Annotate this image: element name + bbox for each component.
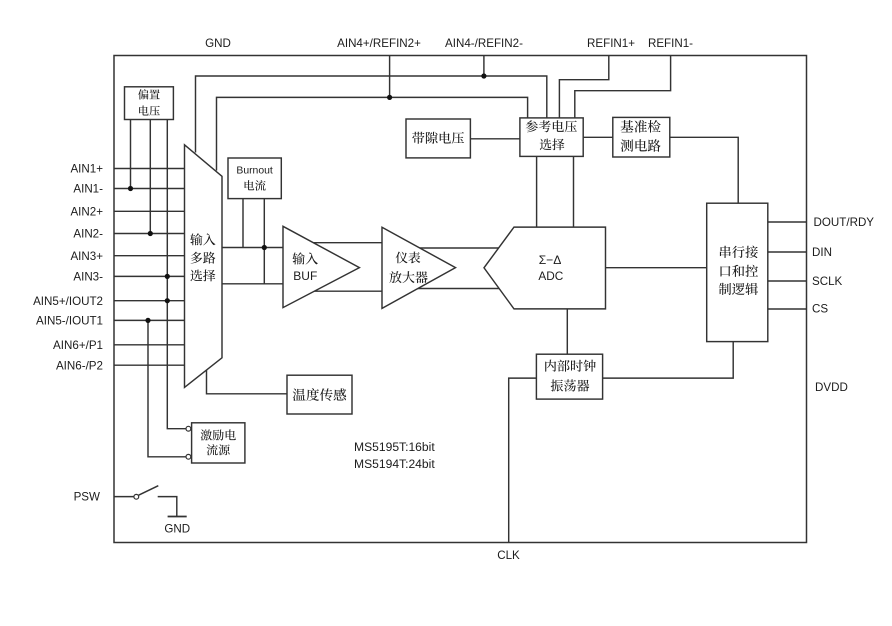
junction dot bias/AIN3- bbox=[165, 274, 170, 279]
wire 参考电压选择 to 基准检测电路 bbox=[583, 136, 613, 138]
block 带隙电压 (bandgap voltage) bbox=[406, 119, 470, 158]
wire bias output 3 / excitation current 1: to AIN3-, AIN5+ and 激励电流源 bbox=[167, 120, 186, 429]
wire ADC output to serial interface bbox=[606, 267, 707, 269]
wire serial interface to pin CS bbox=[768, 308, 807, 310]
wire serial interface to pin DOUT/RDY bbox=[768, 221, 807, 223]
wire ADC to 内部时钟振荡器 bbox=[566, 309, 568, 354]
block 温度传感 (temperature sensor) bbox=[287, 375, 352, 414]
block 串行接口和控制逻辑 (serial interface & control logic) bbox=[707, 203, 768, 341]
wire 仪表放大器 to ADC (lower) bbox=[410, 288, 505, 290]
junction dot AIN4+ on net B bbox=[387, 95, 392, 100]
wire 参考电压选择 to ADC ref 1 bbox=[536, 156, 538, 227]
wire input pin AIN2- to mux bbox=[114, 233, 186, 235]
wire Burnout lead 1 bbox=[242, 199, 244, 248]
wire input pin AIN1- to mux bbox=[114, 188, 186, 190]
wire mux to 温度传感 bbox=[207, 369, 288, 394]
wire input pin AIN3+ to mux bbox=[114, 255, 186, 257]
wire input pin AIN5-/IOUT1 to mux bbox=[114, 319, 186, 321]
wire 仪表放大器 to ADC (upper) bbox=[410, 247, 505, 249]
block 偏置电压 (bias voltage) U-bias bbox=[125, 87, 174, 120]
wire input pin AIN2+ to mux bbox=[114, 210, 186, 212]
wire bias output 1 to AIN1- node bbox=[130, 120, 132, 189]
svg-text:AIN1-: AIN1- bbox=[73, 183, 103, 196]
junction dot excitation/AIN5- bbox=[145, 318, 150, 323]
wire serial interface to pin SCLK bbox=[768, 280, 807, 282]
wire BUF to 仪表放大器 (upper) bbox=[305, 242, 383, 244]
wire oscillator to CLK pin on bottom border bbox=[509, 378, 537, 542]
wire switch to ground bbox=[158, 497, 177, 517]
svg-text:PSW: PSW bbox=[74, 491, 100, 504]
block 内部时钟振荡器 (internal clock oscillator) bbox=[536, 354, 602, 399]
block 激励电流源 (excitation current source) bbox=[192, 423, 245, 463]
junction dot bias/AIN1- bbox=[128, 186, 133, 191]
wire net A: AIN4- line down-left into mux and right into 参考电压选择 bbox=[196, 76, 547, 153]
svg-text:AIN2+: AIN2+ bbox=[70, 205, 103, 218]
svg-text:ADC: ADC bbox=[538, 269, 563, 283]
svg-text:AIN5-/IOUT1: AIN5-/IOUT1 bbox=[36, 315, 103, 328]
wire 参考电压选择 to ADC ref 2 bbox=[573, 156, 575, 227]
wire bias output 2 to AIN2- node bbox=[149, 120, 151, 234]
block 参考电压选择 (reference voltage select) bbox=[520, 118, 583, 156]
junction dot excitation/AIN5+ bbox=[165, 298, 170, 303]
wire mux to BUF (upper) bbox=[222, 247, 284, 249]
instrumentation amplifier 仪表放大器 (triangle) bbox=[382, 227, 456, 308]
wire input pin AIN6-/P2 to mux bbox=[114, 364, 186, 366]
svg-text:CLK: CLK bbox=[497, 549, 520, 562]
svg-text:SCLK: SCLK bbox=[812, 275, 843, 288]
wire AIN4+/REFIN2+ from top border down to junction bbox=[389, 56, 391, 98]
PSW switch contact circle bbox=[134, 494, 139, 499]
junction dot AIN4- on net A bbox=[481, 73, 486, 78]
wire 带隙电压 to 参考电压选择 bbox=[470, 138, 520, 140]
ground bar for PSW switch bbox=[168, 516, 187, 518]
svg-text:AIN4+/REFIN2+: AIN4+/REFIN2+ bbox=[337, 37, 421, 50]
svg-text:REFIN1+: REFIN1+ bbox=[587, 37, 635, 50]
wire PSW pin to switch bbox=[114, 496, 134, 498]
wire REFIN1- from top border into 参考电压选择 bbox=[575, 56, 671, 121]
svg-text:GND: GND bbox=[205, 37, 231, 50]
block Burnout 电流 (burnout current) bbox=[228, 158, 281, 199]
wire REFIN1+ from top border into 参考电压选择 bbox=[559, 56, 608, 121]
block 基准检测电路 (reference detect circuit) bbox=[613, 117, 670, 157]
svg-text:DIN: DIN bbox=[812, 246, 832, 259]
svg-text:AIN3+: AIN3+ bbox=[70, 250, 103, 263]
wire excitation current 2: AIN5- node to 激励电流源 bbox=[148, 320, 186, 456]
svg-text:Burnout: Burnout bbox=[236, 166, 273, 177]
wire 基准检测电路 to serial-interface top bbox=[670, 137, 738, 203]
wire serial interface to pin DIN bbox=[768, 251, 807, 253]
sigma-delta ADC (pentagon) bbox=[484, 227, 606, 309]
wire input pin AIN5+/IOUT2 to mux bbox=[114, 300, 186, 302]
junction dot bias/AIN2- bbox=[148, 231, 153, 236]
wire mux to BUF (lower) bbox=[222, 283, 284, 285]
svg-text:AIN5+/IOUT2: AIN5+/IOUT2 bbox=[33, 295, 103, 308]
wire AIN4-/REFIN2- from top border down to junction bbox=[483, 56, 485, 77]
svg-text:AIN2-: AIN2- bbox=[73, 228, 103, 241]
chip boundary bbox=[114, 56, 807, 543]
wire input pin AIN3- to mux bbox=[114, 275, 186, 277]
buffer amplifier 输入BUF (triangle) bbox=[283, 226, 359, 307]
svg-text:CS: CS bbox=[812, 303, 828, 316]
excitation output terminal circle 1 bbox=[186, 426, 191, 431]
svg-text:MS5194T:24bit: MS5194T:24bit bbox=[354, 457, 435, 471]
svg-text:BUF: BUF bbox=[293, 269, 317, 283]
svg-text:AIN4-/REFIN2-: AIN4-/REFIN2- bbox=[445, 37, 523, 50]
svg-text:AIN6+/P1: AIN6+/P1 bbox=[53, 339, 103, 352]
svg-text:GND: GND bbox=[164, 523, 190, 536]
input multiplexer 输入多路选择 (trapezoid) bbox=[185, 145, 223, 388]
svg-text:AIN6-/P2: AIN6-/P2 bbox=[56, 359, 103, 372]
svg-text:MS5195T:16bit: MS5195T:16bit bbox=[354, 440, 435, 454]
junction dot Burnout lead 2 on upper BUF wire bbox=[262, 245, 267, 250]
wire Burnout lead 2 bbox=[263, 199, 265, 284]
svg-text:AIN1+: AIN1+ bbox=[70, 163, 103, 176]
wire input pin AIN1+ to mux bbox=[114, 168, 186, 170]
svg-text:DOUT/RDY: DOUT/RDY bbox=[814, 216, 875, 229]
svg-text:DVDD: DVDD bbox=[815, 381, 848, 394]
svg-text:Σ−Δ: Σ−Δ bbox=[539, 253, 562, 267]
wire BUF to 仪表放大器 (lower) bbox=[305, 290, 383, 292]
wire input pin AIN6+/P1 to mux bbox=[114, 344, 186, 346]
svg-text:REFIN1-: REFIN1- bbox=[648, 37, 693, 50]
svg-text:AIN3-: AIN3- bbox=[73, 271, 103, 284]
PSW switch lever bbox=[139, 486, 159, 496]
wire oscillator to serial-interface bottom bbox=[603, 342, 734, 379]
excitation output terminal circle 2 bbox=[186, 454, 191, 459]
wire net B: AIN4+ line down-left into mux and right into 参考电压选择 bbox=[217, 97, 528, 170]
